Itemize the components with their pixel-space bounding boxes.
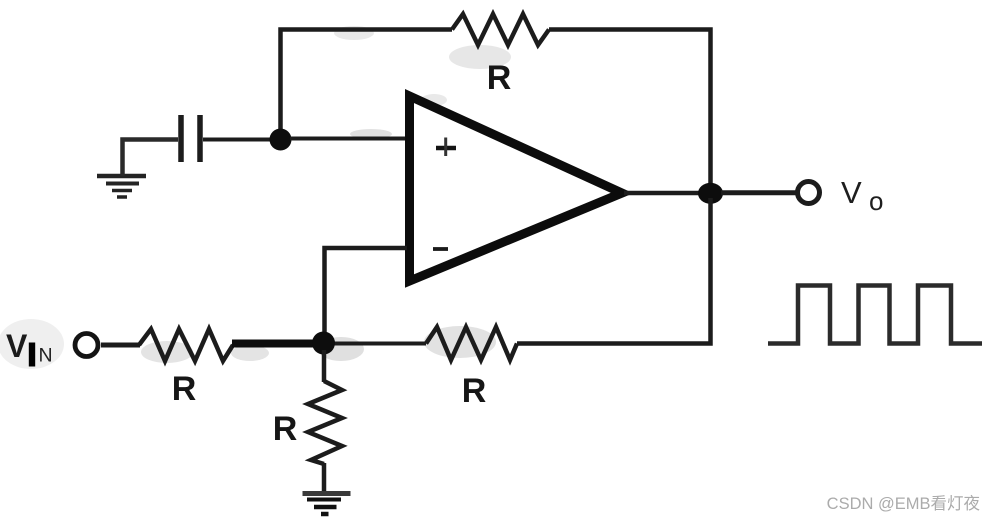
op-amp - input marker <box>433 247 448 251</box>
svg-text:N: N <box>39 345 53 367</box>
wire: op-amp output <box>624 191 700 196</box>
wire from top-left ground up to capacitor C1 <box>123 140 179 177</box>
wire from noninverting node to op-amp + input <box>290 137 408 141</box>
node: noninverting input junction <box>270 129 292 151</box>
svg-text:R: R <box>487 59 512 97</box>
label Vin <box>6 328 53 367</box>
svg-text:CSDN @EMB看灯夜: CSDN @EMB看灯夜 <box>827 494 980 513</box>
resistor R2 (input) <box>139 329 233 361</box>
terminal Vo (open circle) <box>798 182 820 204</box>
node: output junction <box>698 183 723 204</box>
svg-text:V: V <box>6 328 28 364</box>
wire from output node to Vo terminal <box>721 190 797 195</box>
resistor R3 (lower feedback) <box>426 327 517 360</box>
op-amp U1 <box>410 96 623 281</box>
wire from feedback resistor R1 to output node <box>549 30 711 189</box>
wire from lower feedback resistor R3 to inverting junction <box>333 342 426 346</box>
ground (top left) <box>97 176 146 197</box>
wire from noninverting node up and over to feedback resistor R1 <box>281 30 453 141</box>
svg-text:V: V <box>841 175 862 210</box>
square wave output waveform <box>768 286 982 344</box>
resistor R4 (inverting node to ground) <box>308 381 342 464</box>
node: inverting input junction <box>312 332 335 355</box>
svg-text:R: R <box>462 372 487 410</box>
resistor R1 (top feedback) <box>452 14 549 45</box>
wire (thick) from input resistor R2 to inverting junction <box>232 340 323 348</box>
wire from capacitor C1 to noninverting node <box>203 138 272 142</box>
wire from inverting junction down to grounding resistor R4 <box>322 350 327 382</box>
ground (bottom) <box>303 494 351 515</box>
wire from grounding resistor R4 to bottom ground <box>322 463 327 492</box>
wire from output node down and left to lower feedback resistor R3 <box>517 198 711 344</box>
wire: inverting input from junction corner <box>325 248 408 334</box>
capacitor C1 <box>181 115 200 162</box>
terminal Vin (open circle) <box>75 334 98 357</box>
smudge group (decorative) <box>0 26 511 369</box>
wire from Vin terminal to input resistor R2 <box>101 343 140 348</box>
op-amp + input marker <box>436 146 456 151</box>
svg-text:R: R <box>273 410 298 448</box>
svg-text:R: R <box>172 370 197 408</box>
svg-text:o: o <box>869 186 883 216</box>
